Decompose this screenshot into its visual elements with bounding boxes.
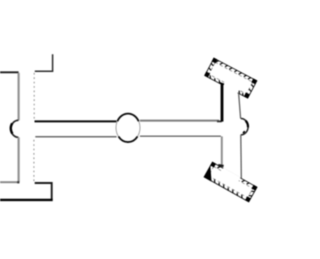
north pavilion walls — [204, 58, 257, 99]
dashed inner wall upper — [33, 73, 35, 120]
north pavilion hatch ticks short edges — [208, 63, 254, 91]
east wing west wall upper hook — [219, 83, 224, 85]
north pavilion corner blocks — [212, 58, 216, 62]
east wing west wall lower foot — [218, 164, 223, 167]
corridor south wall east — [140, 135, 221, 137]
east wing west wall lower — [221, 136, 223, 164]
north pavilion hatch ticks bottom edge — [209, 75, 244, 95]
south pavilion west corner block — [204, 167, 216, 181]
rotunda thick south arc — [119, 137, 138, 143]
south pavilion hatch ticks top edge — [217, 166, 249, 186]
west wall lower segment — [18, 137, 20, 182]
north pavilion hatch ticks top edge — [216, 60, 251, 80]
dashed inner wall lower — [33, 140, 35, 182]
corridor north wall west — [35, 120, 117, 122]
east wing west wall upper thick — [221, 83, 224, 121]
south pavilion door opening — [221, 168, 240, 181]
east wing east wall lower — [240, 135, 243, 178]
west apse thick arc — [11, 123, 13, 133]
south pavilion hatch ticks bottom edge — [213, 180, 243, 199]
corridor north wall east — [140, 120, 219, 122]
west apse — [11, 120, 19, 137]
south pavilion corner blocks — [211, 162, 215, 166]
east apse thick arc — [246, 121, 248, 128]
east apse — [241, 119, 248, 135]
wall south of west room end accent — [17, 181, 19, 183]
corridor south wall west — [35, 136, 116, 138]
wall north of west room — [0, 71, 19, 73]
east wing east wall upper — [239, 93, 241, 119]
wall south of west room — [0, 181, 19, 183]
corridor north wall east junction — [217, 120, 222, 122]
south pavilion walls — [204, 162, 257, 202]
south thick bar wall — [0, 199, 53, 201]
east apse lower tick — [243, 131, 245, 133]
rotunda thick north arc — [117, 114, 138, 122]
southeast corner wall — [35, 183, 52, 199]
west wall upper segment — [18, 73, 20, 121]
north pavilion door opening — [223, 82, 240, 94]
northeast L wall — [35, 54, 53, 71]
rotunda ring — [116, 113, 140, 142]
south pavilion hatch ticks short edges — [249, 190, 255, 197]
